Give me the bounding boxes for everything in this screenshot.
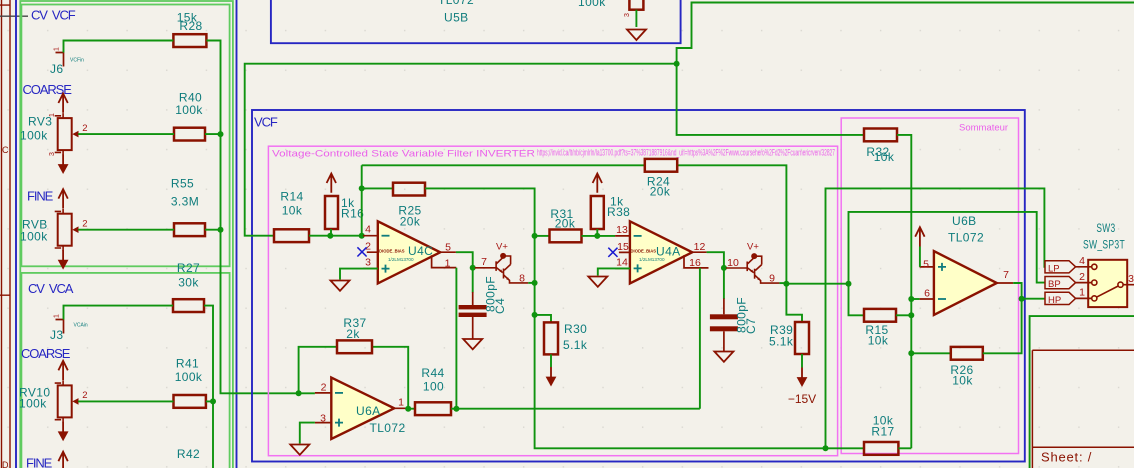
wire bus to R17	[826, 447, 865, 449]
power arrow above RVB	[58, 189, 67, 208]
svg-text:100k: 100k	[19, 397, 47, 411]
junction buffer8 node	[532, 280, 538, 286]
wire R17 right	[898, 447, 911, 449]
resistor R40 100k	[174, 128, 205, 141]
svg-text:R27: R27	[177, 261, 200, 275]
svg-text:9: 9	[769, 273, 775, 285]
wire R14 to U4C pin4	[309, 235, 363, 237]
svg-text:100k: 100k	[20, 129, 48, 143]
svg-text:FINE: FINE	[26, 456, 53, 468]
svg-text:COARSE: COARSE	[21, 346, 71, 361]
svg-text:R16: R16	[341, 207, 364, 221]
wire LP line from bus to LP label	[826, 188, 1046, 448]
junction R25 tee	[359, 185, 365, 191]
svg-text:CV VCF: CV VCF	[31, 8, 76, 23]
ground U6A pin3	[290, 445, 309, 455]
svg-text:4: 4	[365, 224, 371, 236]
svg-text:1/2LM13700: 1/2LM13700	[639, 257, 665, 262]
svg-text:10k: 10k	[874, 150, 895, 164]
svg-text:C7: C7	[744, 318, 758, 334]
svg-text:4: 4	[1079, 255, 1085, 267]
svg-text:3: 3	[1128, 273, 1134, 285]
svg-text:6: 6	[924, 288, 930, 300]
wire BP up and to BP label	[849, 212, 1046, 284]
svg-text:J6: J6	[50, 62, 63, 76]
wire R26 left	[911, 352, 951, 354]
svg-text:100k: 100k	[20, 230, 48, 244]
svg-text:LP: LP	[1048, 263, 1060, 274]
sheet pin line top-left	[0, 15, 28, 17]
wire U4C pin3 to ground	[340, 269, 378, 280]
resistor R26 10k	[951, 347, 983, 360]
svg-text:R30: R30	[564, 322, 587, 336]
svg-text:R41: R41	[176, 357, 199, 371]
svg-text:12: 12	[694, 241, 706, 253]
power arrow below RV10	[58, 422, 69, 442]
potentiometer RV3 100k	[55, 113, 79, 155]
hierarchical sheet box top (U5B area, blue)	[271, 0, 681, 43]
svg-text:SW3: SW3	[1096, 221, 1115, 235]
resistor 100k (top, partial)	[629, 0, 643, 10]
power arrow above RV3	[58, 94, 67, 113]
resistor R16 1k	[325, 196, 338, 229]
ground C4	[463, 339, 482, 349]
junction R30 tee	[532, 312, 538, 318]
svg-text:10k: 10k	[282, 204, 303, 218]
svg-text:DIODE_BIAS: DIODE_BIAS	[379, 248, 405, 253]
wire R30 jog	[535, 315, 551, 323]
wire U6B output to HP	[1013, 283, 1045, 299]
svg-text:14: 14	[616, 256, 628, 268]
resistor R44 100	[415, 402, 451, 415]
svg-text:VCFin: VCFin	[70, 58, 84, 64]
junction HP node	[1019, 296, 1025, 302]
power arrow -15V below R39	[797, 368, 808, 388]
svg-text:J3: J3	[50, 328, 63, 342]
junction R26/summing	[908, 350, 914, 356]
junction U6B pin6	[908, 296, 914, 302]
junction BP/R15 column	[846, 281, 852, 287]
resistor R17 10k	[864, 442, 898, 455]
wire R16 bottom	[330, 229, 332, 236]
hierarchical sheet box (left outer, blue)	[16, 0, 237, 468]
op-amp U4A (1/2 LM13700 OTA)	[615, 221, 708, 283]
wire R39 column	[786, 284, 802, 322]
svg-text:VCF: VCF	[254, 115, 278, 130]
svg-text:V+: V+	[747, 242, 759, 253]
svg-text:3: 3	[320, 413, 326, 425]
junction R44/bias	[453, 406, 459, 412]
svg-text:C4: C4	[493, 298, 507, 314]
no-connect X U4C pin2	[357, 247, 366, 256]
wire R24 line right down to BP node	[677, 165, 786, 283]
svg-text:V+: V+	[496, 241, 508, 252]
wire buffer9 to BP node	[779, 282, 786, 284]
wire R31 right to U4A pin13	[582, 235, 616, 237]
resistor R55 3.3M	[174, 223, 205, 236]
svg-text:CV VCA: CV VCA	[28, 281, 74, 296]
no-connect X U4A pin15	[608, 248, 617, 257]
wire U4C buffer column (R31/R30/LP)	[535, 236, 826, 448]
wire R24 line left	[362, 164, 645, 166]
svg-text:R17: R17	[871, 425, 894, 439]
power arrow below RV3	[58, 155, 69, 175]
resistor R32 10k	[864, 129, 897, 142]
resistor R15 10k	[864, 309, 896, 322]
capacitor C7 800pF	[710, 299, 738, 352]
wire R39 bottom	[801, 354, 803, 368]
junction R55 right	[218, 227, 224, 233]
wire RV3 wiper to R40	[78, 133, 220, 135]
wire resistor to ground (U5B box)	[635, 10, 637, 27]
svg-text:R42: R42	[177, 447, 200, 461]
graphic box Sommateur (pink)	[841, 118, 1018, 454]
resistor R37 2k	[337, 340, 372, 353]
potentiometer RVB 100k	[55, 209, 79, 251]
svg-text:R28: R28	[179, 19, 202, 33]
svg-text:3: 3	[624, 13, 631, 17]
svg-text:3.3M: 3.3M	[171, 195, 199, 209]
power arrow below RVB	[58, 250, 69, 270]
svg-text:2: 2	[1079, 271, 1085, 283]
hierarchical label HP	[1045, 292, 1076, 306]
wire U4C pin1 down to bias row	[455, 268, 457, 409]
svg-text:HP: HP	[1048, 295, 1061, 306]
junction U6A pin2	[296, 390, 302, 396]
svg-text:7: 7	[481, 256, 487, 268]
hierarchical label LP	[1045, 261, 1076, 275]
wire C7 top	[723, 268, 725, 299]
svg-text:1: 1	[54, 47, 61, 51]
wire R37 feedback loop	[299, 347, 409, 409]
wire J6 to R28	[64, 41, 174, 53]
svg-text:R14: R14	[280, 190, 303, 204]
svg-text:−15V: −15V	[788, 392, 816, 406]
wire buffer8 to node	[528, 282, 534, 284]
wire R32 right down summing column	[897, 135, 911, 448]
power arrow above R38	[593, 174, 602, 193]
resistor R28 15k	[173, 34, 206, 47]
junction BP node	[783, 281, 789, 287]
wire R31 left	[535, 235, 550, 237]
svg-text:Sheet: /: Sheet: /	[1041, 450, 1092, 465]
junction input/R32 column	[674, 61, 680, 67]
wire C4 top	[472, 268, 474, 293]
wire BP row to R15 column	[786, 283, 848, 285]
svg-text:D: D	[2, 460, 9, 468]
power arrow above RV10	[58, 361, 67, 380]
buffer transistors U4A (pins 10/9)	[726, 253, 780, 283]
potentiometer RV10 100k	[55, 380, 79, 422]
svg-text:1: 1	[398, 397, 404, 409]
svg-text:1: 1	[49, 113, 56, 117]
svg-text:10k: 10k	[952, 374, 973, 388]
svg-text:7: 7	[1003, 269, 1009, 281]
svg-text:3: 3	[49, 152, 56, 156]
graphic box CV VCA (light green)	[21, 273, 229, 468]
svg-text:Voltage-Controlled State Varia: Voltage-Controlled State Variable Filter…	[272, 149, 535, 160]
wire input column down to R32	[677, 64, 864, 135]
power arrow (partial, bottom pot)	[58, 452, 67, 468]
resistor R24 20k	[645, 159, 677, 172]
wire BP node down to R15	[849, 284, 865, 316]
svg-text:5: 5	[923, 259, 929, 271]
resistor R25 20k	[393, 183, 425, 196]
wire U6A pin3 to ground	[300, 423, 315, 444]
wire U4A pin12 to output node	[707, 252, 724, 268]
svg-text:C: C	[2, 145, 9, 155]
wire U4A pin16 down to bias row	[699, 268, 701, 409]
junction U4A output node	[721, 265, 727, 271]
junction U6A output	[405, 406, 411, 412]
ground C7	[714, 352, 733, 362]
junction R40 right	[218, 131, 224, 137]
wire J3 to R27 and down	[64, 306, 214, 468]
junction R31 column top	[532, 233, 538, 239]
svg-text:R38: R38	[607, 205, 630, 219]
svg-text:100k: 100k	[578, 0, 606, 9]
op-amp U6A TL072	[315, 378, 408, 439]
wire U4C input column up	[361, 165, 363, 235]
resistor R41 100k	[174, 395, 206, 408]
svg-text:U4C: U4C	[408, 244, 433, 258]
wire RV10 wiper to R41	[78, 400, 213, 402]
svg-text:3: 3	[365, 257, 371, 269]
wire pin6 stub	[911, 298, 919, 300]
capacitor C4 800pF	[459, 292, 487, 339]
svg-text:5.1k: 5.1k	[769, 335, 794, 349]
op-amp U4C (1/2 LM13700 OTA)	[363, 221, 456, 283]
wire R30 bottom	[550, 354, 552, 367]
op-amp U6B TL072	[920, 214, 1014, 315]
svg-text:20k: 20k	[555, 217, 576, 231]
graphic box corner bottom-right (green)	[1030, 316, 1134, 468]
wire power to pin5	[919, 247, 921, 267]
ground (U5B box)	[627, 30, 646, 41]
title block (sheet frame, maroon)	[1032, 350, 1134, 468]
svg-text:13: 13	[616, 224, 628, 236]
power arrow above U6B pin5	[915, 227, 924, 246]
wire U4C pin5 to output node	[456, 252, 473, 268]
svg-text:BP: BP	[1048, 279, 1061, 290]
svg-text:1: 1	[445, 258, 451, 270]
junction R16/R14	[327, 233, 333, 239]
svg-text:https;//invid.ca/lt/nb/cjmlrln: https;//invid.ca/lt/nb/cjmlrln/la13700.p…	[537, 148, 835, 159]
page frame border	[0, 0, 10, 468]
resistor R27 30k	[173, 299, 204, 312]
hierarchical sheet box VCF (blue)	[252, 110, 1025, 462]
svg-text:5.1k: 5.1k	[563, 338, 588, 352]
wire R28 right down to U6A pin2 row	[206, 41, 315, 394]
switch SW3 SW_SP3T	[1076, 260, 1134, 307]
wire R15 right	[896, 314, 911, 316]
svg-text:1: 1	[54, 314, 61, 318]
wire R26 right up to output/HP	[983, 299, 1022, 354]
svg-text:2: 2	[321, 382, 327, 394]
svg-text:1: 1	[1079, 286, 1085, 298]
buffer transistors U4C (pins 7/8)	[475, 253, 529, 283]
svg-text:COARSE: COARSE	[23, 82, 73, 97]
wire output to R44	[408, 408, 415, 410]
graphic box CV VCF (light green)	[21, 5, 229, 267]
junction R38/pin13	[594, 233, 600, 239]
power arrow above R16	[327, 174, 336, 193]
resistor R30 5.1k	[544, 322, 558, 354]
svg-text:DIODE_BIAS: DIODE_BIAS	[631, 248, 657, 253]
svg-text:15: 15	[617, 241, 629, 253]
resistor R14 10k	[274, 229, 309, 242]
svg-text:10k: 10k	[868, 334, 889, 348]
wire filter input from U5B down-left	[677, 3, 1134, 64]
svg-text:U5B: U5B	[444, 11, 469, 25]
wire R38 bottom	[596, 229, 598, 236]
wire R44 to bias rail (U4C pin1 / U4A pin16)	[451, 408, 700, 410]
svg-text:2: 2	[365, 241, 371, 253]
svg-text:2: 2	[82, 219, 87, 230]
svg-text:U6A: U6A	[356, 404, 381, 418]
svg-text:SW_SP3T: SW_SP3T	[1083, 238, 1125, 252]
svg-text:8: 8	[519, 272, 525, 284]
junction U4C input column	[359, 233, 365, 239]
junction R15/summing	[908, 312, 914, 318]
svg-text:2k: 2k	[346, 327, 360, 341]
graphic box INVERTER (pink)	[268, 146, 837, 456]
svg-text:2: 2	[82, 390, 87, 401]
junction U4C output node	[470, 265, 476, 271]
ground U4A pin14	[588, 277, 607, 287]
svg-text:TL072: TL072	[370, 421, 406, 435]
svg-text:16: 16	[689, 257, 701, 269]
svg-text:Sommateur: Sommateur	[959, 123, 1008, 134]
wire input horizontal and down to R14	[245, 64, 677, 236]
svg-text:VCAin: VCAin	[74, 323, 88, 329]
resistor R38 1k	[591, 196, 604, 229]
svg-text:100k: 100k	[175, 103, 203, 117]
ground U4C pin3	[331, 281, 350, 291]
svg-text:U6B: U6B	[952, 214, 977, 228]
svg-text:20k: 20k	[400, 215, 421, 229]
svg-text:R55: R55	[171, 177, 194, 191]
resistor R31 20k	[550, 230, 582, 243]
svg-text:10: 10	[727, 257, 739, 269]
svg-text:TL072: TL072	[438, 0, 474, 7]
graphic box CV outer (light green)	[20, 1, 233, 468]
svg-text:2: 2	[82, 123, 87, 134]
svg-text:TL072: TL072	[948, 231, 984, 245]
connector J6	[56, 53, 64, 67]
power arrow -15V below R30 (label hidden)	[546, 367, 557, 387]
svg-text:R44: R44	[421, 366, 444, 380]
junction LP bus	[823, 445, 829, 451]
svg-text:100: 100	[423, 380, 444, 394]
hierarchical label BP	[1045, 277, 1076, 291]
wire U4A pin14 to ground	[598, 268, 630, 275]
svg-text:1/2LM13700: 1/2LM13700	[388, 257, 414, 262]
connector J3	[56, 320, 64, 334]
svg-text:100k: 100k	[175, 370, 203, 384]
svg-text:30k: 30k	[178, 276, 199, 290]
wire RVB wiper to R55	[78, 229, 220, 231]
svg-text:5: 5	[445, 242, 451, 254]
junction R41 right	[210, 398, 216, 404]
wire R25 right down to U4C buffer node	[425, 188, 535, 236]
svg-text:FINE: FINE	[27, 189, 54, 204]
svg-text:20k: 20k	[650, 185, 671, 199]
resistor R39 5.1k	[795, 322, 809, 354]
wire R25 left	[362, 187, 393, 189]
